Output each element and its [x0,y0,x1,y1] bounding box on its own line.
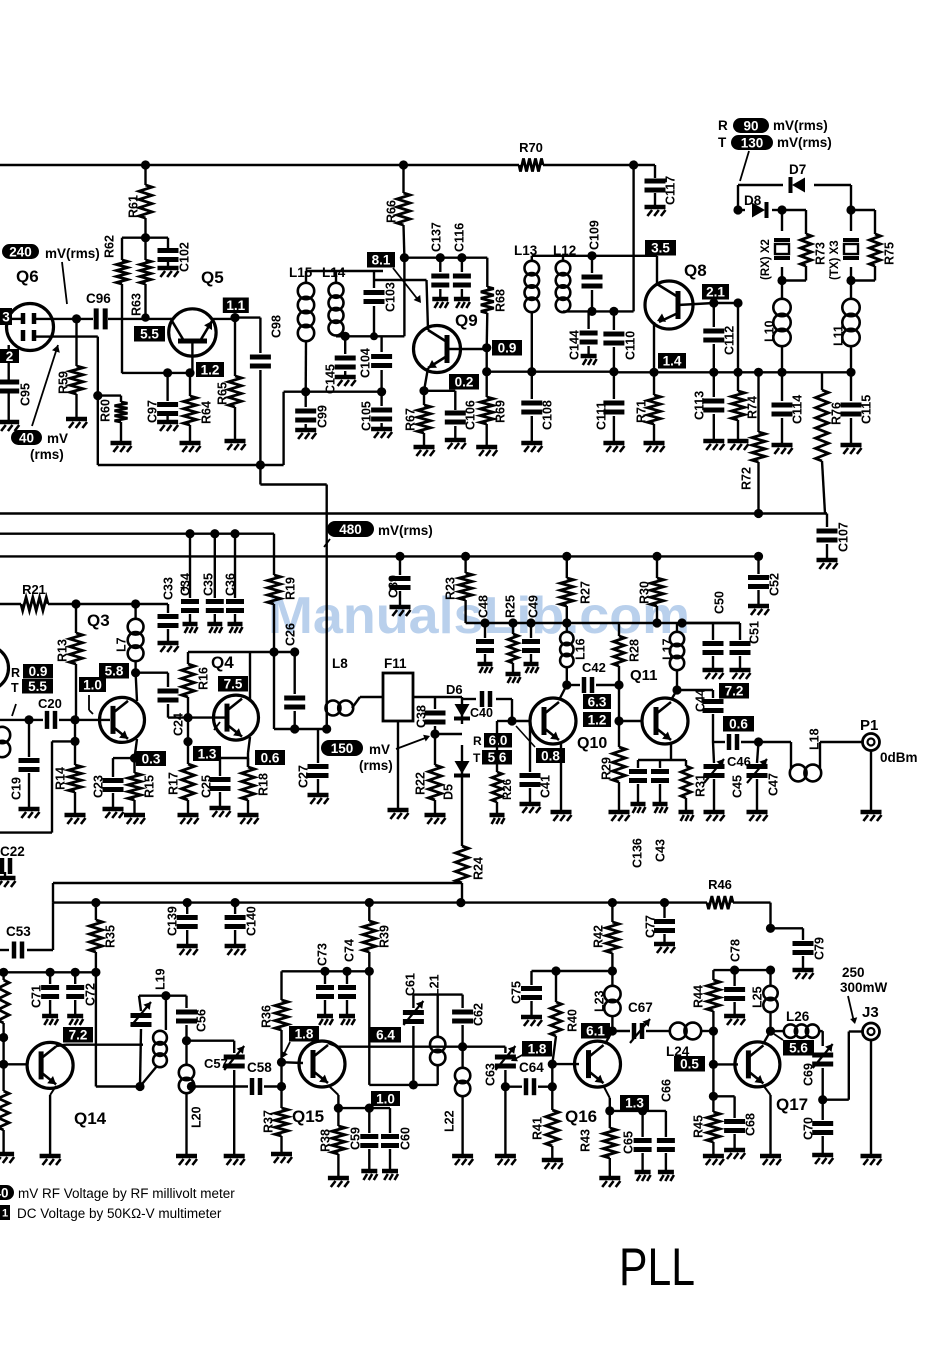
wire Q4 base wire [188,716,227,718]
capacitor C47 trimmer [747,742,781,821]
wire Q4row to C26 [274,651,295,653]
label 7.5 box [218,676,248,692]
svg-text:C43: C43 [654,839,668,862]
wire Q15 emitter [328,1085,338,1108]
node emitter row d [754,368,763,377]
svg-text:40: 40 [0,1185,9,1200]
resistor R72 [740,372,766,513]
label C67 [628,1000,653,1015]
svg-text:R76: R76 [830,402,844,425]
label 1.1 box [223,298,249,314]
label 1.3 box [193,746,221,761]
node L20 tap [187,1082,196,1091]
label Q11 [630,667,658,684]
wire L19 tank top [139,995,187,997]
label 5.6 box [774,1034,814,1056]
svg-text:R13: R13 [56,639,70,662]
svg-text:R66: R66 [385,200,399,223]
svg-text:C78: C78 [729,939,743,962]
wire Q16 emitter [603,1085,610,1111]
wire tap to C58 [191,1085,248,1087]
pointer 150 [396,735,430,749]
crystal X3 [829,210,859,281]
svg-text:C22: C22 [0,844,25,859]
svg-text:C48: C48 [477,595,491,618]
node Q11 base [614,716,623,725]
wire feedback C22 [0,741,75,832]
pointer 8.1 to Q9 [393,268,421,303]
svg-text:5.6: 5.6 [789,1041,808,1056]
svg-text:R24: R24 [472,857,486,880]
legend oval symbol [0,1185,14,1200]
wire to J3 [823,1032,863,1100]
svg-text:1.2: 1.2 [201,362,220,377]
node Q15 emitter [334,1104,343,1113]
wire Q15 emitter row [338,1107,390,1109]
node Q6-R59 [72,314,81,323]
label Q14 [74,1109,107,1128]
wire Q11 emitter [670,742,672,760]
svg-text:D6: D6 [446,682,463,697]
svg-text:L18: L18 [808,728,822,750]
svg-text:R75: R75 [883,242,897,265]
svg-text:T: T [473,751,481,765]
capacitor C45 trimmer [704,742,745,821]
svg-text:C60: C60 [399,1127,413,1150]
resistor R14 [54,720,86,824]
capacitor C145 [324,336,356,394]
capacitor C24 [158,673,189,736]
wire feedback to 480-line [260,392,326,729]
label R 6.0 T 5.6 [473,733,512,765]
label Q10 [577,735,607,752]
svg-text:R45: R45 [692,1115,706,1138]
resistor R35 [89,903,117,973]
svg-text:R18: R18 [257,773,271,796]
node lineC C52 [754,552,763,561]
node out C47 [754,737,763,746]
svg-text:Q15: Q15 [292,1107,324,1126]
label 1.0 box Q15 [371,1091,400,1106]
node emitter row a [649,368,658,377]
svg-text:L22: L22 [443,1110,457,1132]
capacitor C139 [166,903,198,955]
svg-text:R70: R70 [519,140,543,155]
capacitor C71 [30,972,60,1025]
wire C99 node [284,391,382,393]
svg-text:T: T [718,135,727,150]
svg-text:R67: R67 [404,408,418,431]
resistor R28 [614,623,642,685]
svg-text:150: 150 [331,741,354,756]
svg-text:C58: C58 [247,1060,272,1075]
transistor Q16 [575,1041,621,1087]
resistor R76 [816,372,844,513]
capacitor C36 [224,534,245,633]
svg-text:R40: R40 [566,1009,580,1032]
label F11 [384,656,407,671]
node Q3 collector [131,668,140,677]
label 40 mV (rms) [11,430,68,462]
svg-text:C42: C42 [582,660,606,675]
svg-text:R59: R59 [57,371,71,394]
label 2.1 box [702,284,729,300]
wire to Q15 base [280,1062,282,1086]
svg-text:(RX) X2: (RX) X2 [760,239,772,280]
svg-text:C69: C69 [802,1063,816,1086]
svg-text:L10: L10 [763,320,777,342]
node Q9 emitter [419,386,428,395]
resistor R13 [56,604,83,720]
svg-text:mV: mV [47,431,68,446]
node Q9 base lower [482,367,491,376]
wire Q9 collector [374,280,428,330]
svg-text:7.2: 7.2 [69,1028,88,1043]
resistor R19 [268,534,298,652]
inductor L23 [593,971,621,1031]
capacitor C53 [0,903,53,959]
svg-text:C56: C56 [195,1009,209,1032]
node rail C139 [183,898,192,907]
node C103 bottom [370,332,378,340]
svg-text:C112: C112 [723,326,737,355]
label 1.8 box Q15 [289,1026,319,1042]
node rail-R61 [141,160,150,169]
resistor R25 [504,595,521,683]
svg-text:L14: L14 [322,265,346,280]
pointer 1.8 Q15 [282,1042,291,1058]
resistor R40 [551,971,580,1064]
svg-text:300mW: 300mW [840,980,888,995]
svg-text:T: T [11,681,19,695]
wire to Q16 base [551,1064,553,1087]
node L15 bottom [301,387,310,396]
wire Q14 collector [56,1045,143,1046]
resistor R22 [414,734,446,824]
wire Q8 base right [714,302,738,304]
svg-text:C139: C139 [166,906,180,936]
svg-text:C20: C20 [38,696,62,711]
svg-text:1.2: 1.2 [588,712,607,727]
capacitor C34 [179,534,200,633]
pointer 480 [324,539,330,547]
label 8.1 box [367,252,395,268]
node lineC C89 [395,552,404,561]
capacitor C73 [316,943,335,1025]
node C63 C64 [501,1082,510,1091]
node C109 top [587,251,596,260]
svg-text:R14: R14 [54,767,68,790]
svg-text:C145: C145 [324,364,338,394]
svg-text:5.5: 5.5 [28,679,47,694]
label D6 [446,682,463,697]
label R 90 mV(rms) [718,118,828,133]
node C64 right [548,1082,557,1091]
capacitor C27 [297,729,329,804]
node Q17 collector [766,1027,775,1036]
capacitor C74 [338,939,357,1025]
svg-text:C98: C98 [270,315,284,338]
svg-text:2.1: 2.1 [706,285,725,300]
svg-text:C102: C102 [178,242,192,272]
node R21-R13 [71,599,80,608]
svg-text:R36: R36 [260,1005,274,1028]
capacitor C106 [424,391,478,449]
wire Q3 base row [0,719,110,721]
svg-text:Q9: Q9 [455,311,478,330]
wire to L18 [759,741,792,743]
capacitor C72 [66,972,97,1025]
capacitor C107 [817,514,851,570]
svg-text:R16: R16 [197,667,211,690]
transistor Q11 [642,698,688,744]
label 1.2 box Q10 [583,712,611,727]
wire L21 tank top [413,993,462,995]
node C97 top [163,368,172,377]
wire Q14 bias row [0,971,96,973]
node bias R39 [365,967,374,976]
svg-text:C79: C79 [813,937,827,960]
node Q15 base [277,1058,286,1067]
svg-text:R44: R44 [692,985,706,1008]
wire F11 out [413,696,462,698]
svg-text:C19: C19 [10,777,24,800]
svg-text:R61: R61 [127,195,141,218]
resistor R60 [98,396,132,452]
svg-text:Q5: Q5 [201,268,224,287]
label 0.9 box [492,340,522,356]
capacitor C38 [415,697,446,734]
svg-text:C103: C103 [384,282,398,312]
resistor R27 [560,556,592,623]
svg-text:R: R [473,734,482,748]
wire L12 tank bottom [563,310,634,312]
svg-text:P1: P1 [860,717,878,734]
wire Q17 emitter [760,1085,781,1165]
node C38 bottom [430,729,439,738]
black box x2 [0,308,12,325]
svg-text:L16: L16 [574,638,588,660]
svg-text:7.2: 7.2 [725,684,744,699]
capacitor C89 [387,556,411,616]
svg-text:R: R [718,118,728,133]
svg-text:C105: C105 [360,401,374,431]
capacitor C140 [225,903,259,955]
capacitor C63 trimmer [484,1046,516,1165]
svg-text:R15: R15 [143,775,157,798]
svg-text:PLL: PLL [619,1238,695,1297]
node lineB C36 [230,529,239,538]
label 0.2 box [449,374,479,390]
capacitor C113 [693,372,725,450]
node C108 top [527,367,536,376]
capacitor C52 [748,556,782,615]
label J3 [862,1004,879,1021]
svg-text:(rms): (rms) [30,447,64,462]
svg-text:J3: J3 [862,1004,879,1021]
wire R39 to tank2 [369,971,437,1085]
node lineB C34 [185,529,194,538]
svg-text:250: 250 [842,965,865,980]
capacitor C41 [520,721,553,813]
svg-text:C107: C107 [837,522,851,552]
capacitor C136 [629,760,647,868]
wire mid-to-bottom link [53,883,462,903]
node X3 top [846,205,855,214]
svg-text:0.9: 0.9 [29,664,48,679]
capacitor C46 [713,734,759,769]
wire tank to supply [403,258,405,337]
svg-text:C67: C67 [628,1000,653,1015]
pointer 1.0 [89,695,93,714]
transistor Q14 [27,1042,73,1088]
node R27 bottom [562,618,571,627]
capacitor C103 [364,271,398,336]
svg-text:R69: R69 [494,400,508,423]
label 7.2 box Q11 [719,683,749,699]
resistor R38 [319,1108,349,1187]
capacitor C58 [247,1060,282,1095]
capacitor C26 [284,623,306,729]
wire diode top loop [738,185,851,210]
bus line A [0,512,827,514]
resistor R42 [592,903,619,971]
wire R35 to tank [96,972,140,1086]
svg-text:R62: R62 [103,235,117,258]
label 150 oval [321,740,393,773]
wire Q4 emitter down [248,737,250,767]
svg-text:1.8: 1.8 [528,1042,547,1057]
resistor R59 [57,319,88,428]
node emitter row c [733,368,742,377]
inductor L10 [763,281,791,373]
wire Q16 base wire [552,1063,579,1065]
label C42 [582,660,606,675]
node bias left [0,968,8,977]
label 0.6 box [255,750,285,765]
svg-text:C33: C33 [162,577,176,600]
node X3 bottom [846,276,855,285]
svg-text:1: 1 [2,1207,8,1219]
label Q3 [87,611,110,630]
node L24 R44 [709,1027,718,1036]
wire Q17 base link [713,1031,738,1064]
resistor R31 [679,760,708,821]
wire Q16 collector [605,1031,612,1044]
node D8 left [733,205,742,214]
svg-text:L17: L17 [661,638,675,660]
node Q16 base [548,1060,557,1069]
node C79 top [766,924,775,933]
wire R44 row [713,969,770,971]
label 0.5 box [674,1056,705,1072]
svg-text:R30: R30 [638,581,652,604]
connector P1 [861,734,918,822]
node R21-L7 [131,599,140,608]
title PLL [619,1238,695,1297]
resistor R45 [692,1096,724,1165]
svg-text:6.4: 6.4 [376,1028,395,1043]
capacitor C51 [713,621,762,679]
resistor R67 [404,391,435,456]
pointer 1.3 [214,722,220,730]
pointer 0.8 [516,726,535,747]
svg-text:R72: R72 [740,467,754,490]
svg-text:1.8: 1.8 [295,1027,314,1042]
pointer to Q6 source [32,345,60,426]
svg-text:C77: C77 [644,915,658,938]
node R63-wire [141,313,149,321]
label L15 [289,265,313,280]
node 480line bottom [322,724,331,733]
node Q10 collector [562,680,571,689]
node rail-C117 [629,160,638,169]
label 1.0 box Q3 [79,677,106,692]
wire Q3 collector up [136,673,137,701]
capacitor C60 [381,1108,413,1180]
svg-text:C114: C114 [791,395,805,424]
capacitor C49 [522,595,541,673]
wire Q5 emitter node [122,372,192,374]
svg-text:C27: C27 [297,765,311,788]
svg-text:C106: C106 [464,400,478,430]
node C26 top [290,647,299,656]
svg-text:C96: C96 [86,291,111,306]
svg-text:R21: R21 [22,582,46,597]
node C109 bottom [587,307,596,316]
capacitor C59 [349,1108,379,1180]
label 1.4 box [658,353,686,369]
svg-text:C34: C34 [179,573,193,596]
node C19 top [24,715,33,724]
transistor Q6 [7,304,54,351]
legend line2 [17,1206,222,1221]
svg-text:6.1: 6.1 [586,1024,605,1039]
inductor L24 [658,1023,713,1059]
node source-R60 [93,391,102,400]
svg-text:R26: R26 [502,779,514,800]
node C145 top [341,332,350,341]
label Q16 [565,1107,597,1126]
node lineC R27 [562,552,571,561]
svg-text:6.3: 6.3 [588,694,607,709]
node rail R24 [456,898,465,907]
resistor R41 [531,1087,563,1169]
resistor R23 [444,556,473,623]
resistor R36 [260,971,289,1062]
svg-text:R73: R73 [814,242,828,265]
svg-text:R37: R37 [262,1110,276,1133]
svg-text:2: 2 [6,349,14,364]
capacitor C65 [622,1111,652,1181]
resistor R74 [728,303,760,450]
label 5.5 box [134,326,165,342]
capacitor C79 [771,928,827,979]
node R65 top [230,313,239,322]
node C58 right [277,1082,286,1091]
label Q9 [455,311,478,330]
svg-text:L7: L7 [115,637,129,652]
svg-text:R46: R46 [708,877,732,892]
wire Q6 output [7,318,93,320]
node C98 feedback [256,460,265,469]
svg-text:Q8: Q8 [684,261,707,280]
pointer to diode node [740,151,749,181]
label 5.8 box [99,663,129,679]
inductor L6 partial [0,727,10,757]
svg-text:Q3: Q3 [87,611,110,630]
svg-text:C57: C57 [204,1056,228,1071]
